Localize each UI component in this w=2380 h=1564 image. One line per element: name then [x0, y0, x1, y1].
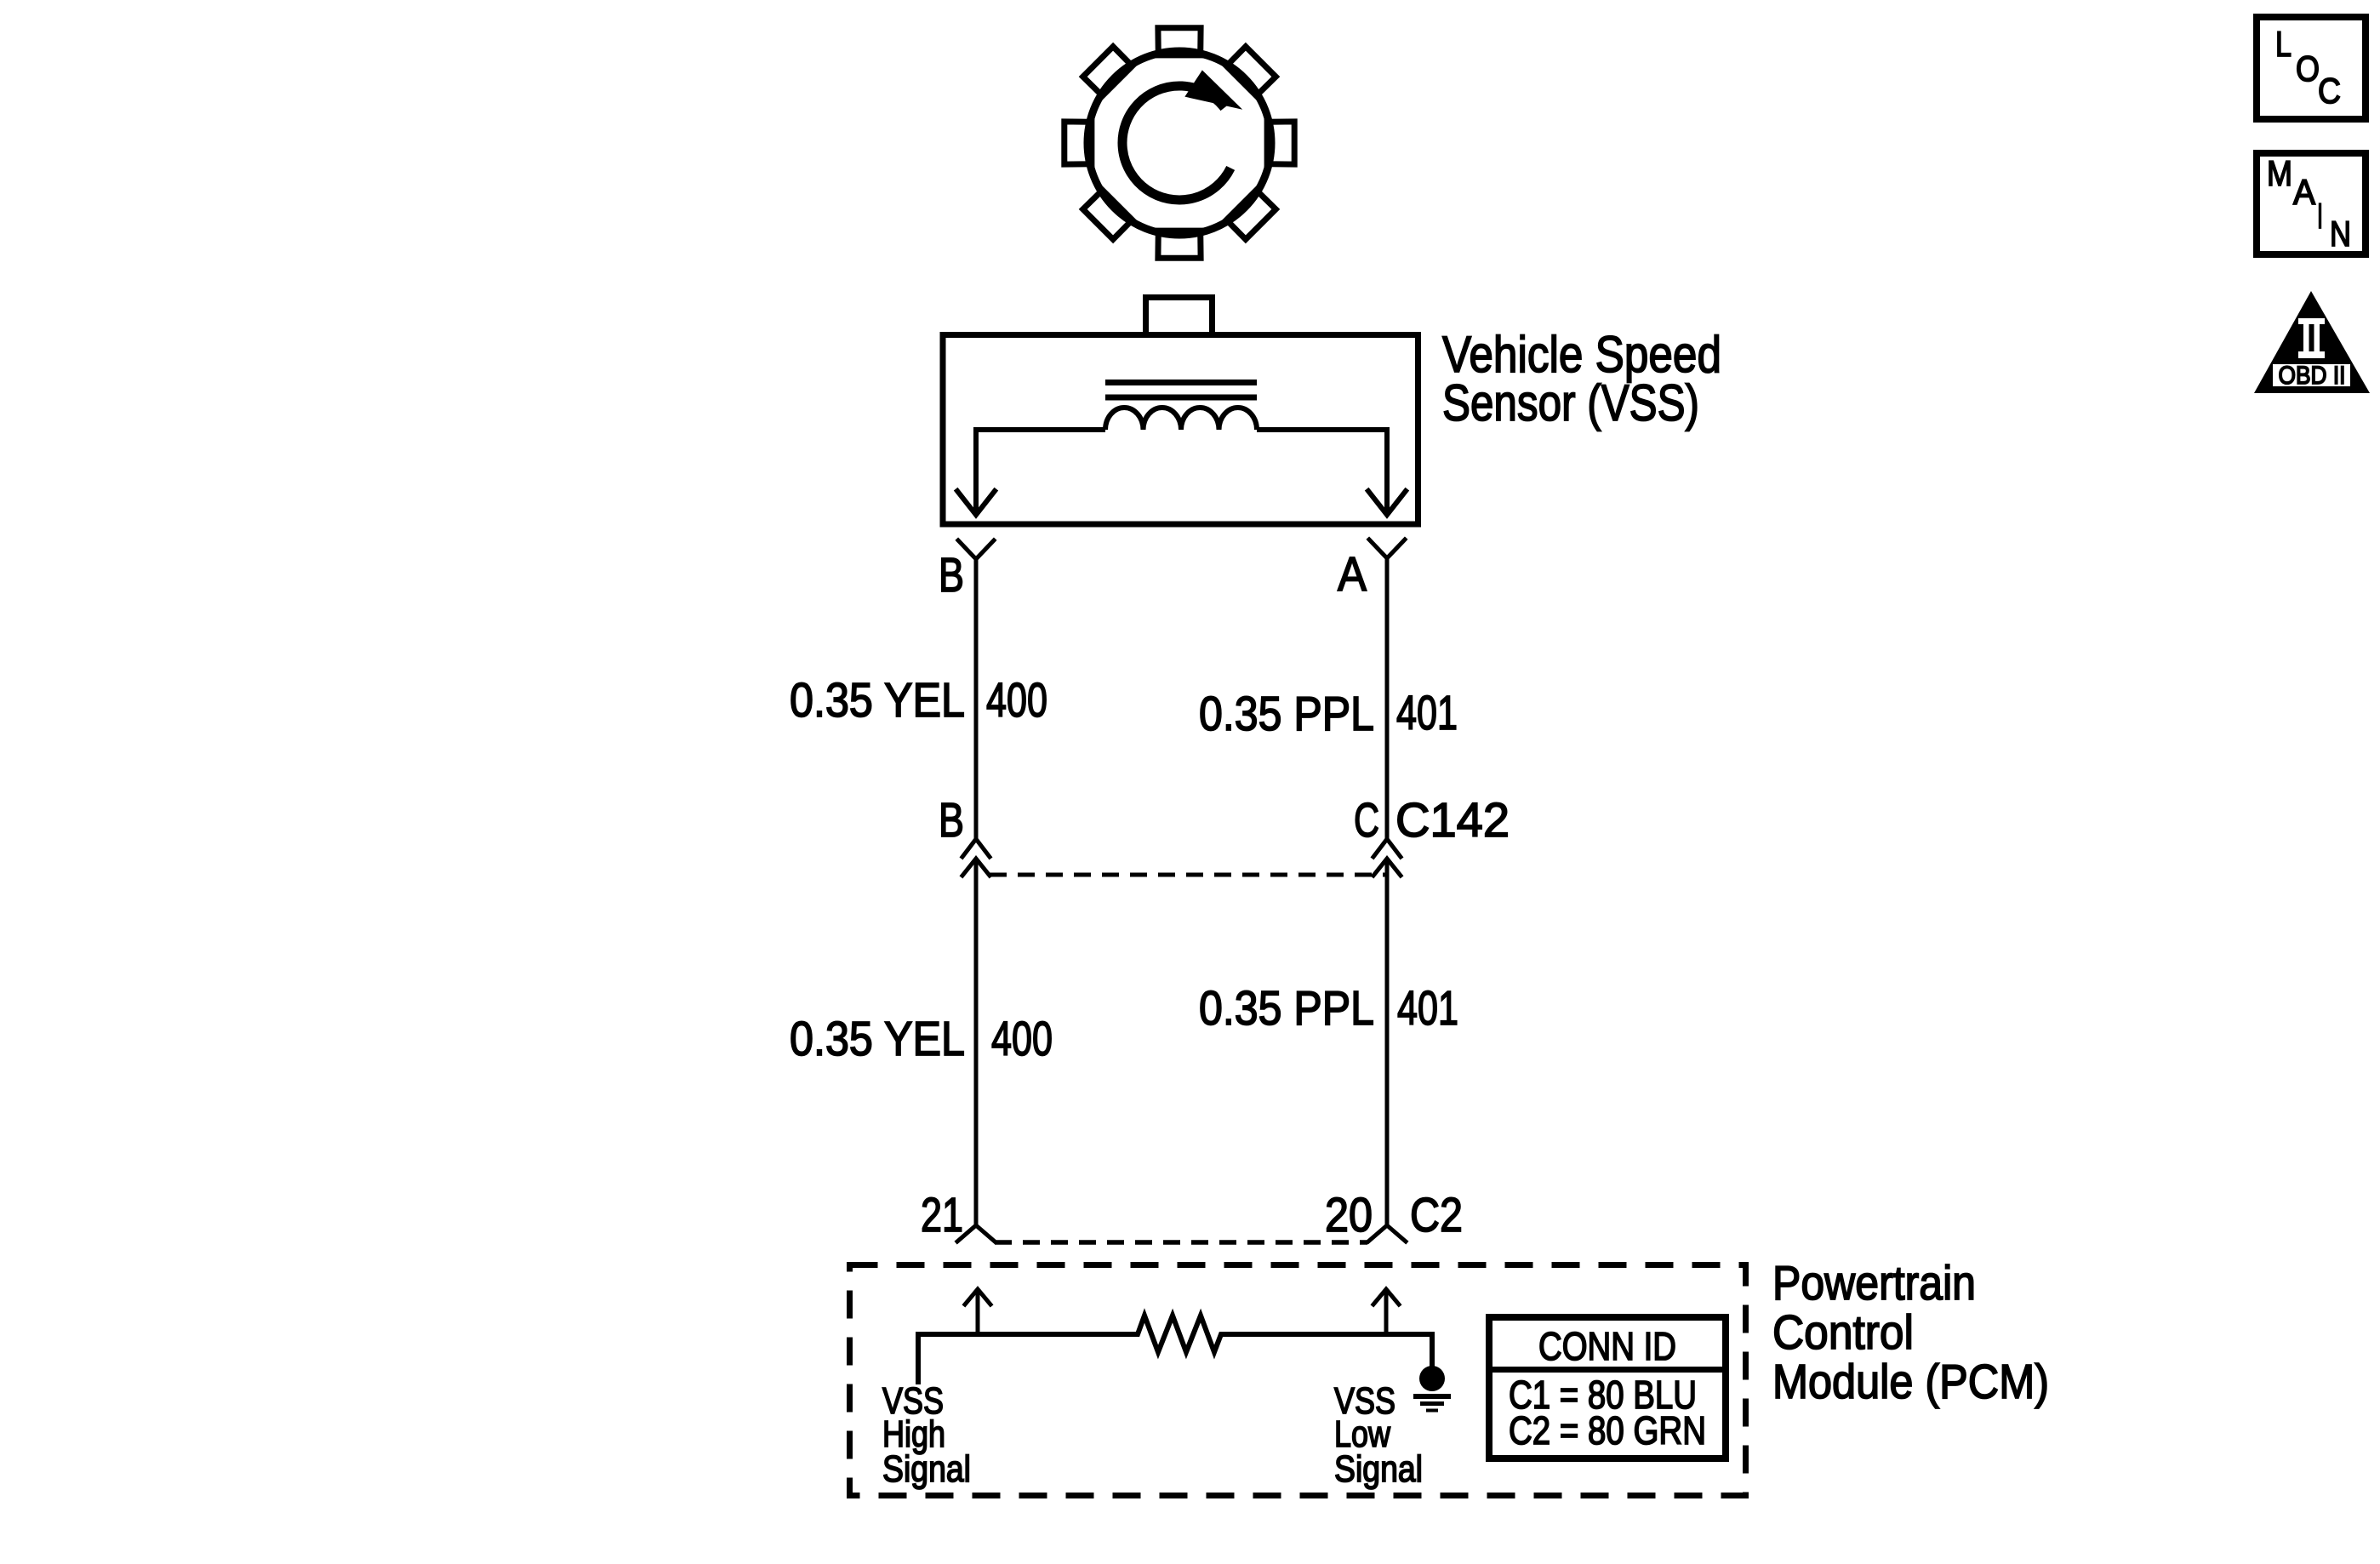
- svg-text:I: I: [2317, 196, 2323, 236]
- svg-text:Sensor (VSS): Sensor (VSS): [1442, 374, 1699, 431]
- svg-text:400: 400: [991, 1012, 1053, 1066]
- svg-text:A: A: [2293, 172, 2315, 212]
- svg-text:C: C: [2318, 71, 2341, 111]
- svg-text:C: C: [1354, 793, 1379, 848]
- svg-text:20: 20: [1325, 1188, 1373, 1242]
- svg-text:21: 21: [921, 1188, 963, 1242]
- svg-text:OBD II: OBD II: [2279, 362, 2346, 390]
- svg-text:Module (PCM): Module (PCM): [1772, 1355, 2049, 1409]
- svg-text:Signal: Signal: [1334, 1448, 1423, 1490]
- svg-text:0.35 PPL: 0.35 PPL: [1199, 981, 1374, 1036]
- svg-text:0.35 PPL: 0.35 PPL: [1199, 687, 1374, 741]
- svg-text:0.35 YEL: 0.35 YEL: [790, 1012, 965, 1066]
- svg-text:C2: C2: [1410, 1188, 1463, 1242]
- svg-text:400: 400: [986, 673, 1047, 728]
- svg-text:N: N: [2330, 214, 2351, 254]
- svg-text:Powertrain: Powertrain: [1772, 1256, 1976, 1310]
- svg-text:Signal: Signal: [882, 1448, 971, 1490]
- svg-text:C2 = 80 GRN: C2 = 80 GRN: [1509, 1408, 1706, 1453]
- svg-text:M: M: [2267, 153, 2292, 193]
- svg-text:Control: Control: [1772, 1305, 1914, 1360]
- svg-text:401: 401: [1397, 981, 1458, 1036]
- svg-text:CONN ID: CONN ID: [1538, 1324, 1676, 1368]
- svg-text:B: B: [939, 793, 964, 848]
- svg-text:L: L: [2275, 24, 2292, 64]
- svg-text:401: 401: [1396, 686, 1458, 740]
- svg-text:B: B: [939, 548, 964, 602]
- svg-text:0.35 YEL: 0.35 YEL: [790, 673, 965, 728]
- svg-text:C142: C142: [1395, 793, 1510, 848]
- svg-text:A: A: [1338, 547, 1367, 602]
- svg-text:O: O: [2296, 49, 2320, 88]
